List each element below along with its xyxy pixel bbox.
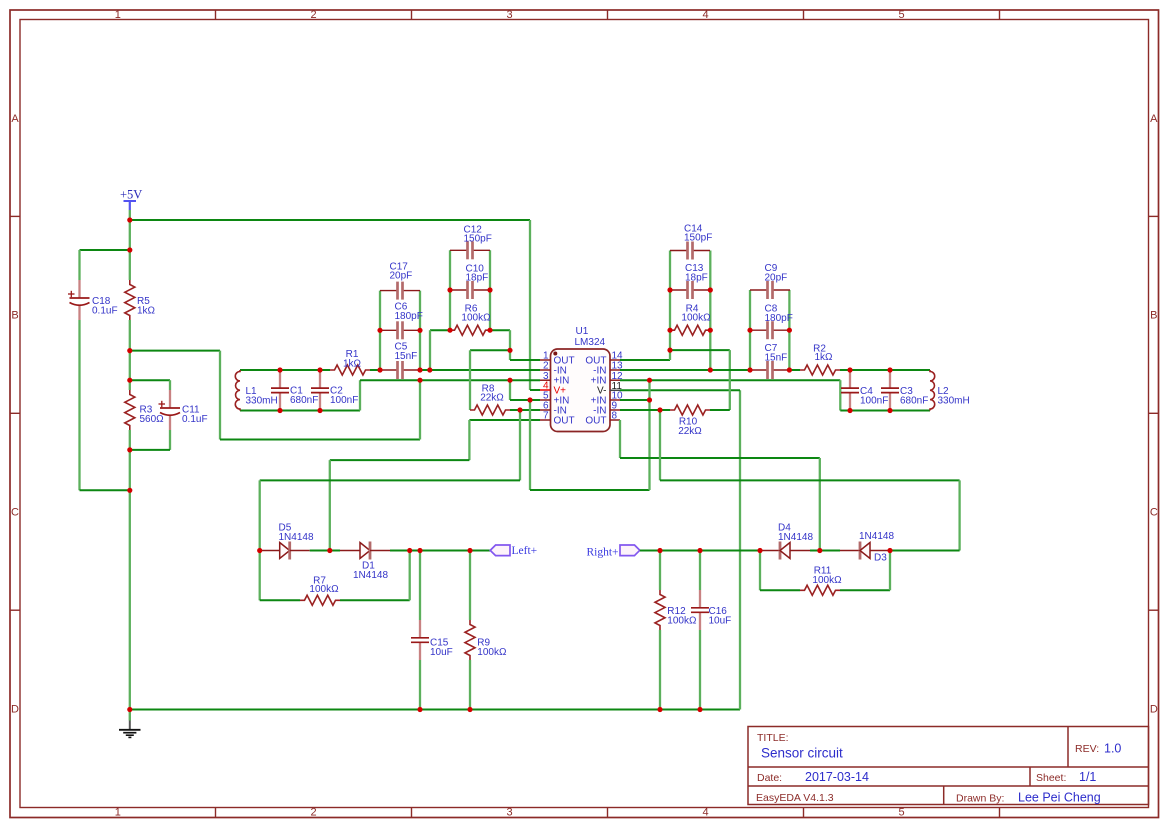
svg-text:A: A <box>11 113 19 125</box>
op-amp U1 LM324 body <box>551 349 611 432</box>
svg-text:+5V: +5V <box>120 188 142 202</box>
wire pin 10 row <box>620 399 650 401</box>
junction C3 bottom <box>887 408 892 413</box>
wire R10 column down <box>729 350 731 410</box>
svg-text:0.1uF: 0.1uF <box>182 414 208 425</box>
wire pin 8 branch horizontal <box>620 457 820 459</box>
wire C11 bottom vertical <box>169 430 171 450</box>
junction C8 left rail <box>747 328 752 333</box>
svg-text:Sensor circuit: Sensor circuit <box>761 746 843 761</box>
resistor R1 <box>330 365 370 375</box>
wire C9 C8 block left rail <box>749 290 751 370</box>
op-amp U1 pin 1 orientation dot <box>553 352 557 356</box>
junction C16 bottom rail <box>697 707 702 712</box>
wire bias tap vertical <box>219 351 221 440</box>
junction C1 bottom <box>277 408 282 413</box>
junction D3 right node R11 riser <box>887 548 892 553</box>
wire pin 6 branch horizontal <box>260 479 520 481</box>
junction C4 top <box>847 367 852 372</box>
svg-text:4: 4 <box>702 807 708 819</box>
wire R7 right riser <box>409 551 411 601</box>
wire pin 9 branch to D3 right <box>890 550 960 552</box>
capacitor C1 <box>279 370 281 388</box>
capacitor C11 polarized <box>169 390 171 408</box>
wire bottom rail riser to +IN row <box>359 380 361 410</box>
wire pin 14 OUT row <box>620 359 670 361</box>
svg-text:Right+: Right+ <box>586 547 618 559</box>
junction C6 left rail <box>377 328 382 333</box>
wire C7 to R2 <box>789 369 800 371</box>
svg-text:1.0: 1.0 <box>1104 742 1121 756</box>
wire pin 14 node to R10 column <box>670 349 730 351</box>
svg-text:1N4148: 1N4148 <box>859 531 894 542</box>
junction C18 branch <box>127 247 132 252</box>
junction connector on pin3 row <box>507 378 512 383</box>
svg-text:1N4148: 1N4148 <box>353 570 388 581</box>
capacitor C10 <box>450 289 468 291</box>
wire D4 to D3 <box>810 550 840 552</box>
wire ground rail riser at right <box>739 390 741 709</box>
junction C13 right rail <box>708 287 713 292</box>
svg-text:Drawn By:: Drawn By: <box>956 793 1004 805</box>
junction D5 anode node <box>257 548 262 553</box>
wire R11 right lead run <box>840 589 890 591</box>
svg-text:680nF: 680nF <box>290 395 318 406</box>
svg-text:330mH: 330mH <box>246 395 278 406</box>
junction pin7 branch at D1 anode <box>327 548 332 553</box>
junction C10 right rail <box>487 287 492 292</box>
junction R12 top <box>657 548 662 553</box>
capacitor C8 <box>750 329 768 331</box>
svg-text:D: D <box>1150 703 1158 715</box>
wire pin 12 row <box>620 379 840 381</box>
svg-text:D3: D3 <box>874 552 887 563</box>
svg-text:1N4148: 1N4148 <box>778 532 813 543</box>
wire C12 block left rail <box>449 250 451 330</box>
wire C18 bottom vertical <box>78 320 80 490</box>
svg-text:150pF: 150pF <box>464 234 492 245</box>
wire pin 5 to pin 12 run <box>530 489 650 491</box>
wire branch to C18 top <box>80 249 131 251</box>
capacitor C15 <box>419 551 421 621</box>
junction R6 right rail <box>487 328 492 333</box>
svg-text:1kΩ: 1kΩ <box>343 359 362 370</box>
svg-text:Left+: Left+ <box>512 545 538 557</box>
junction C15 bottom rail <box>417 707 422 712</box>
wire pin 12 row drop to C4 rail <box>839 380 841 410</box>
junction C1 top <box>277 367 282 372</box>
svg-text:U1: U1 <box>576 326 589 337</box>
op-amp right pin stubs 8-14 <box>610 360 621 420</box>
resistor R2 <box>800 365 840 375</box>
junction bias riser on +IN row <box>417 378 422 383</box>
svg-text:100kΩ: 100kΩ <box>812 575 842 586</box>
junction R4 right rail <box>708 328 713 333</box>
svg-text:2017-03-14: 2017-03-14 <box>805 770 869 784</box>
svg-text:4: 4 <box>702 9 708 21</box>
junction R12 bottom rail <box>657 707 662 712</box>
op-amp pin numbers left <box>543 351 549 422</box>
wire pin 6 branch down to D5 node <box>259 480 261 550</box>
junction C9 block right rail on pin13 row <box>787 367 792 372</box>
svg-text:100kΩ: 100kΩ <box>477 647 507 658</box>
junction C5 right C6 block rail <box>417 367 422 372</box>
wire C18 top vertical <box>78 250 80 280</box>
wire right tank bottom rail <box>840 410 930 412</box>
junction C4 bottom <box>847 408 852 413</box>
wire pin 8 OUT down <box>619 420 621 458</box>
ruler row letters <box>11 113 1158 716</box>
svg-text:C: C <box>11 507 19 519</box>
wire C17 C6 block left rail <box>379 291 381 370</box>
wire pin 7 branch horizontal <box>330 459 470 461</box>
resistor R11 <box>800 585 840 595</box>
svg-text:B: B <box>11 310 18 322</box>
net flag Left+ <box>490 545 510 556</box>
svg-text:330mH: 330mH <box>938 395 970 406</box>
wire pin 7 branch down to diode node <box>329 460 331 550</box>
wire L1 C1 C2 bottom rail <box>240 410 360 412</box>
svg-text:180pF: 180pF <box>395 311 423 322</box>
wire +IN pin3 row <box>360 379 540 381</box>
junction R7 riser <box>407 548 412 553</box>
junction pin 14 node <box>667 348 672 353</box>
wire pin 9 branch down right side <box>958 480 960 550</box>
wire into pin 4 <box>530 389 540 391</box>
diode D1 <box>340 550 360 552</box>
svg-text:B: B <box>1150 310 1157 322</box>
wire R7 left lead run <box>260 599 300 601</box>
svg-text:180pF: 180pF <box>765 313 793 324</box>
capacitor C12 <box>450 249 468 251</box>
wire R11 right riser <box>889 551 891 591</box>
wire C17 C6 block right rail <box>419 291 421 370</box>
resistor R7 <box>300 595 340 605</box>
svg-text:560Ω: 560Ω <box>140 414 165 425</box>
wire R1 to C5 <box>370 369 380 371</box>
svg-text:1: 1 <box>115 9 121 21</box>
junction R4 left rail <box>667 328 672 333</box>
wire feedback node down to pin 1 OUT <box>509 350 511 360</box>
capacitor C5 series <box>380 369 398 371</box>
wire riser to pin 10 and pin 12 <box>648 380 650 490</box>
svg-text:100kΩ: 100kΩ <box>667 615 697 626</box>
wire pin 7 OUT row <box>469 419 540 421</box>
svg-text:TITLE:: TITLE: <box>757 732 789 744</box>
wire C18 bottom return to main rail <box>80 489 131 491</box>
wire D1 cathode to Left+ flag <box>390 550 490 552</box>
capacitor C16 <box>699 551 701 591</box>
wire R2 to L2 top rail <box>840 369 930 371</box>
svg-text:680nF: 680nF <box>900 395 928 406</box>
svg-text:REV:: REV: <box>1075 743 1099 755</box>
junction +5V rail <box>127 217 132 222</box>
junction C10 left rail <box>447 287 452 292</box>
wire pin 7 branch down <box>468 420 470 460</box>
junction pin 10 riser <box>647 397 652 402</box>
junction R6 connector on -IN row <box>427 367 432 372</box>
svg-text:1kΩ: 1kΩ <box>814 352 833 363</box>
op-amp pin numbers right <box>612 351 624 422</box>
wire feedback node to R8 left <box>470 349 510 351</box>
junction pin 5 branch <box>527 397 532 402</box>
wire +5V top rail to V+ column <box>130 219 530 221</box>
wire pin 6 branch down from R8 right <box>519 410 521 480</box>
op-amp left pin stubs 1-7 <box>540 360 551 420</box>
svg-text:Date:: Date: <box>757 772 782 784</box>
svg-text:LM324: LM324 <box>575 337 606 348</box>
svg-text:5: 5 <box>898 807 904 819</box>
capacitor C14 <box>670 250 688 252</box>
svg-text:20pF: 20pF <box>765 272 788 283</box>
resistor R3 <box>125 390 135 430</box>
svg-text:D: D <box>11 703 19 715</box>
junction C9 block left rail on pin13 row <box>747 367 752 372</box>
svg-text:C: C <box>1150 507 1158 519</box>
resistor R4 <box>670 325 710 335</box>
wire bias tap right from below R5 <box>130 350 220 352</box>
svg-text:OUT: OUT <box>554 415 575 426</box>
resistor R12 <box>659 551 661 591</box>
junction C2 top <box>317 367 322 372</box>
junction feedback node <box>507 348 512 353</box>
wire R6 right to feedback node <box>490 329 510 331</box>
svg-text:1N4148: 1N4148 <box>279 532 314 543</box>
wire pin 8 branch down to diode node <box>819 458 821 551</box>
svg-text:Sheet:: Sheet: <box>1036 772 1066 784</box>
svg-text:15nF: 15nF <box>395 351 418 362</box>
svg-text:3: 3 <box>506 807 512 819</box>
wire pin 5 branch down <box>529 400 531 490</box>
svg-text:8: 8 <box>612 411 618 422</box>
svg-text:EasyEDA V4.1.3: EasyEDA V4.1.3 <box>756 792 834 804</box>
wire C14 R4 block right rail <box>709 251 711 371</box>
wire pin 13 -IN row <box>620 369 750 371</box>
diode D4 <box>760 550 780 552</box>
resistor R5 <box>125 280 135 320</box>
svg-text:22kΩ: 22kΩ <box>678 426 702 437</box>
junction C14 block right rail on pin13 row <box>708 367 713 372</box>
svg-text:10uF: 10uF <box>709 615 732 626</box>
svg-text:2: 2 <box>310 807 316 819</box>
wire bias tap riser to +IN row <box>419 380 421 439</box>
svg-text:1kΩ: 1kΩ <box>137 305 156 316</box>
resistor R9 <box>469 551 471 621</box>
capacitor C18 polarized <box>78 280 80 298</box>
wire C5 to pin 2 -IN row <box>420 369 540 371</box>
wire L1 C1 C2 top rail to R1 <box>240 369 330 371</box>
svg-text:100kΩ: 100kΩ <box>681 313 711 324</box>
wire R10 right lead to column <box>710 409 730 411</box>
wire R8 right to pin 6 -IN <box>510 409 540 411</box>
wire pin 14 riser <box>669 350 671 360</box>
wire ground rail bottom <box>130 709 740 711</box>
junction pin8 branch between D4 and D3 <box>817 548 822 553</box>
junction C16 top <box>697 548 702 553</box>
wire R6 left lead to -IN row <box>430 329 450 331</box>
capacitor C6 <box>380 329 398 331</box>
capacitor C7 series <box>750 369 768 371</box>
junction C18 return <box>127 488 132 493</box>
svg-text:150pF: 150pF <box>684 233 712 244</box>
wire +5V vertical from power flag down left main rail <box>129 210 131 280</box>
resistor R8 <box>470 405 510 415</box>
wire bias tap horizontal run <box>220 439 420 441</box>
svg-text:100nF: 100nF <box>860 395 888 406</box>
wire C9 C8 block right rail <box>788 290 790 370</box>
svg-text:2: 2 <box>310 9 316 21</box>
junction C8 right rail <box>787 328 792 333</box>
svg-text:22kΩ: 22kΩ <box>480 393 504 404</box>
svg-text:20pF: 20pF <box>390 271 413 282</box>
junction C13 left rail <box>667 287 672 292</box>
ground symbol <box>129 710 131 721</box>
svg-text:7: 7 <box>543 411 549 422</box>
junction C3 top <box>887 367 892 372</box>
junction R1 C5 and C6 rail <box>377 367 382 372</box>
wire C11 bottom return <box>130 449 170 451</box>
junction C11 branch bottom <box>127 447 132 452</box>
op-amp pin names left <box>554 355 575 426</box>
svg-text:100kΩ: 100kΩ <box>309 584 339 595</box>
junction R9 bottom rail <box>467 707 472 712</box>
wire branch to C11 top <box>130 379 170 381</box>
wire R11 left riser <box>759 551 761 591</box>
svg-text:100kΩ: 100kΩ <box>461 313 491 324</box>
svg-text:1/1: 1/1 <box>1079 770 1096 784</box>
svg-text:A: A <box>1150 113 1158 125</box>
wire V- pin 11 row to riser <box>620 389 740 391</box>
svg-text:Lee Pei Cheng: Lee Pei Cheng <box>1018 791 1101 805</box>
wire pin 9 branch horizontal <box>660 479 960 481</box>
inductor L2 <box>930 370 935 411</box>
diode D5 <box>260 550 280 552</box>
capacitor C2 <box>319 370 321 388</box>
resistor R6 <box>450 325 490 335</box>
svg-text:3: 3 <box>506 9 512 21</box>
junction C2 bottom <box>317 408 322 413</box>
capacitor C4 <box>849 370 851 388</box>
svg-text:18pF: 18pF <box>466 273 489 284</box>
svg-text:15nF: 15nF <box>765 353 788 364</box>
wire R11 left lead run <box>760 589 800 591</box>
junction R9 top <box>467 548 472 553</box>
inductor L1 <box>235 370 240 411</box>
wire main rail below R3 down to ground rail <box>129 430 131 710</box>
wire V+ vertical down to pin 4 <box>529 220 531 390</box>
title block frame <box>748 727 1149 805</box>
wire Right+ flag to D4 <box>640 550 760 552</box>
junction C15 top <box>417 548 422 553</box>
ruler column numbers <box>115 9 905 818</box>
svg-text:5: 5 <box>898 9 904 21</box>
junction pin 12 riser <box>647 378 652 383</box>
junction C6 right rail <box>417 328 422 333</box>
wire pin 5 row <box>510 399 540 401</box>
svg-text:10uF: 10uF <box>430 647 453 658</box>
wire D5 to D1 <box>310 550 340 552</box>
junction D4 anode node R11 riser <box>757 548 762 553</box>
svg-text:100nF: 100nF <box>330 395 358 406</box>
junction pin 9 branch <box>657 407 662 412</box>
wire pin 9 row <box>620 409 670 411</box>
capacitor C9 <box>750 289 768 291</box>
wire pin 9 branch down <box>659 410 661 480</box>
svg-text:18pF: 18pF <box>685 272 708 283</box>
diode D3 <box>840 550 860 552</box>
capacitor C3 <box>889 370 891 388</box>
svg-text:0.1uF: 0.1uF <box>92 305 118 316</box>
wire C14 R4 block left rail <box>669 251 671 351</box>
op-amp pin names right <box>585 355 606 426</box>
wire C11 top vertical <box>169 380 171 390</box>
junction R6 left rail <box>447 328 452 333</box>
junction R8 right branch <box>517 407 522 412</box>
junction C11 branch top <box>127 378 132 383</box>
capacitor C17 <box>380 290 398 292</box>
junction ground rail left <box>127 707 132 712</box>
wire main rail between R5 and R3 <box>129 320 131 390</box>
svg-text:OUT: OUT <box>585 415 606 426</box>
wire R7 left riser <box>259 551 261 601</box>
junction bias tap <box>127 348 132 353</box>
svg-text:1: 1 <box>115 807 121 819</box>
resistor R10 <box>670 405 710 415</box>
wire C12 block right rail <box>489 250 491 330</box>
capacitor C13 <box>670 289 688 291</box>
wire pin3 to pin5 connector <box>509 380 511 400</box>
wire R7 right lead run <box>340 599 410 601</box>
